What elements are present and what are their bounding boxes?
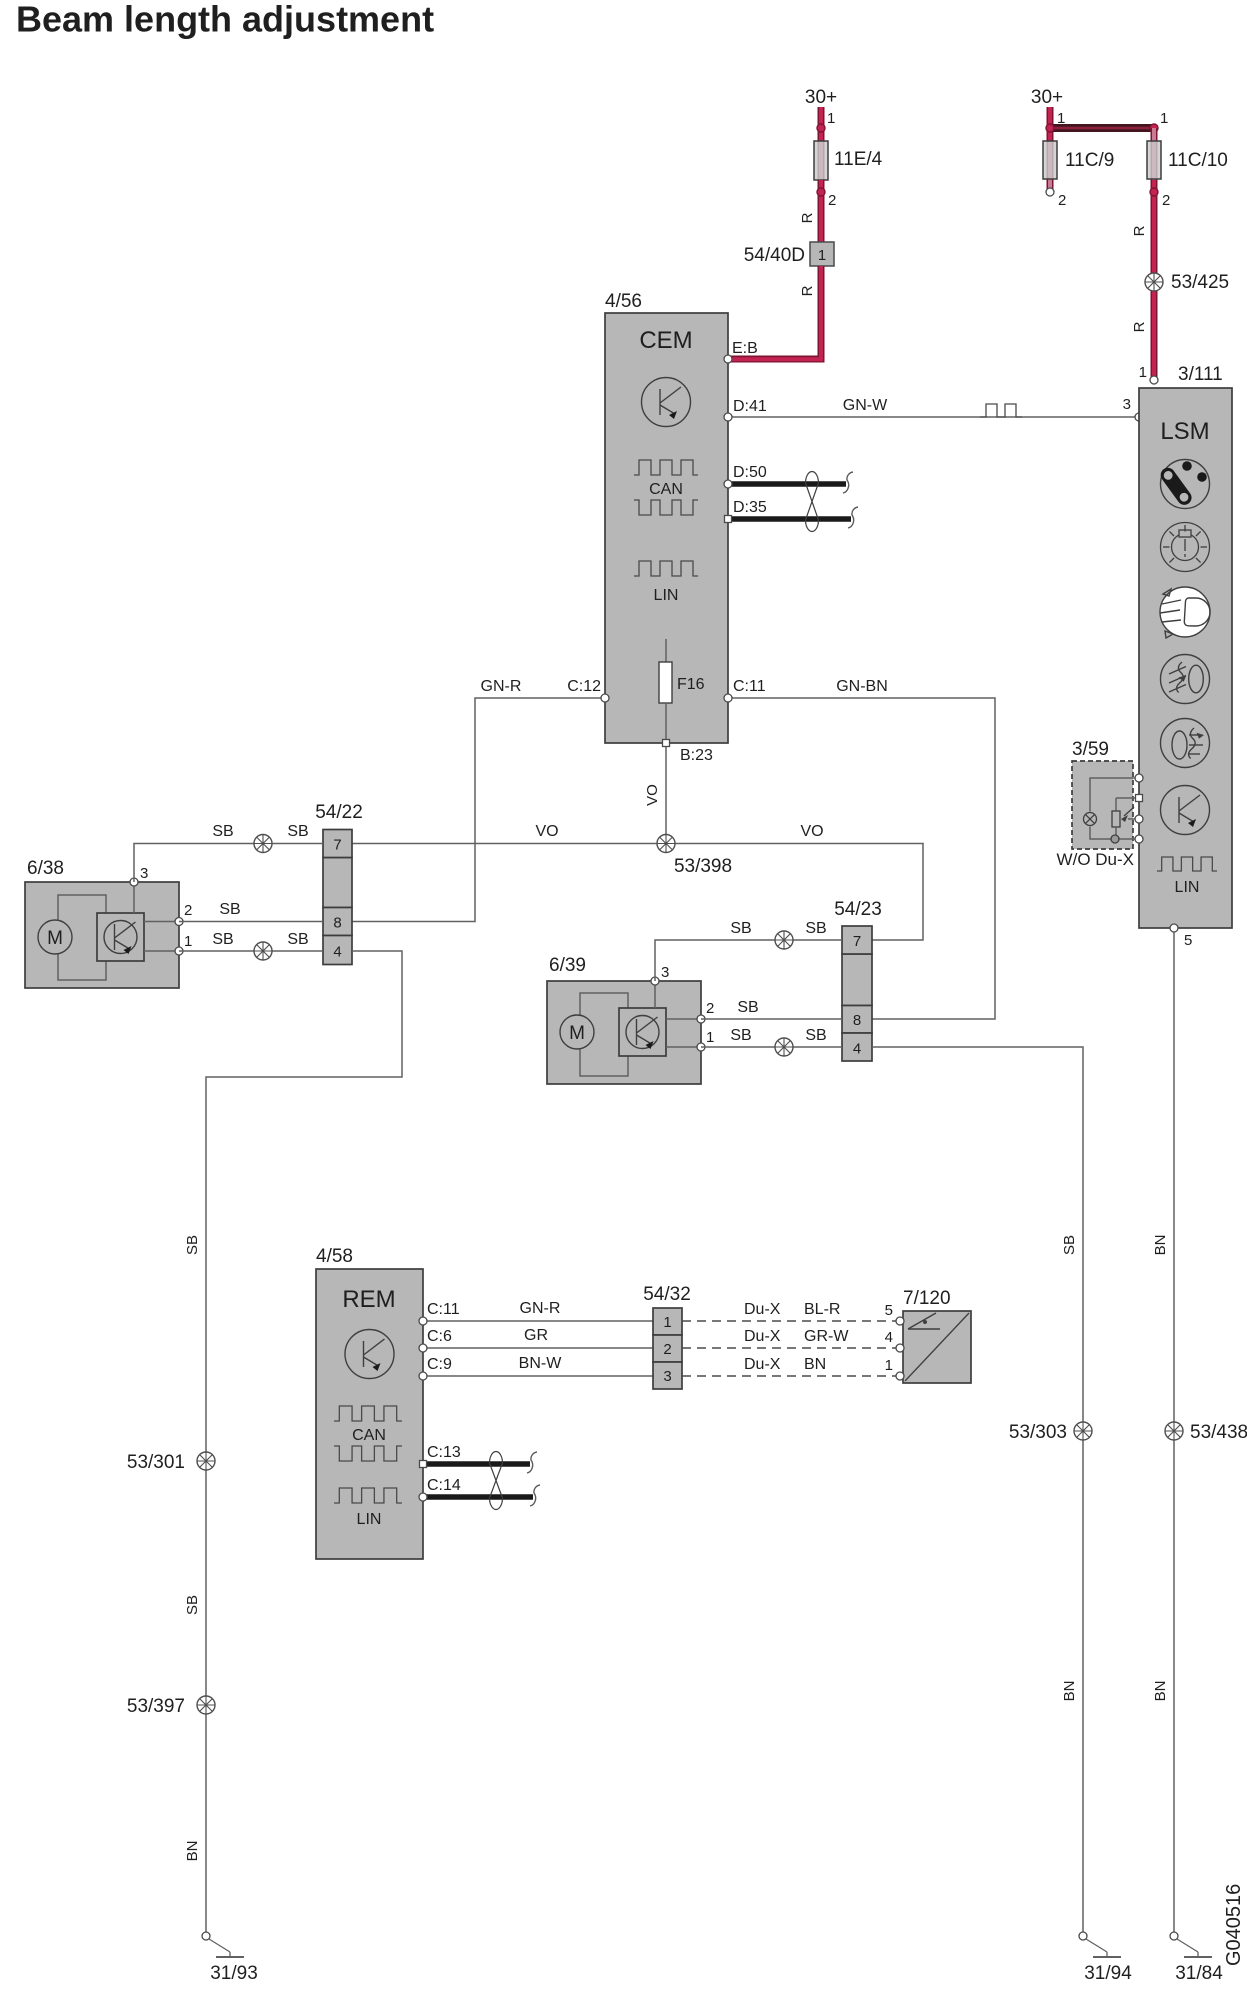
svg-text:SB: SB xyxy=(805,1027,826,1044)
red bus wire joining pin 1 of 11C/9 and 11C/10 xyxy=(1050,124,1154,132)
wire R from 54/40D to CEM E:B xyxy=(728,266,821,359)
svg-text:LIN: LIN xyxy=(1175,879,1200,896)
pin 2 of 11C/9 (open end) xyxy=(1046,188,1054,196)
svg-text:54/40D: 54/40D xyxy=(744,245,805,266)
wire end curl C:14 xyxy=(530,1485,540,1506)
LIN symbol in REM xyxy=(334,1488,402,1503)
svg-text:R: R xyxy=(799,212,816,223)
wire R fuse to connector 54/40D xyxy=(818,180,825,242)
connector 54/23 pin 7 xyxy=(842,926,872,954)
wire BN-W from REM C:9 to 54/32 pin 3 xyxy=(423,1375,653,1377)
wire SB from 6/38 pin 2 to 54/22 pin 8 xyxy=(179,921,323,923)
svg-text:31/94: 31/94 xyxy=(1084,1963,1132,1984)
svg-text:D:41: D:41 xyxy=(733,398,767,415)
svg-text:LIN: LIN xyxy=(654,587,679,604)
svg-text:SB: SB xyxy=(737,999,758,1016)
twisted pair symbol for CAN wires xyxy=(806,472,819,532)
svg-text:6/38: 6/38 xyxy=(27,858,64,879)
pin 2 of 6/38 xyxy=(144,921,179,923)
svg-text:1: 1 xyxy=(706,1029,714,1046)
CAN twisted pair wire from C:13 (cut) xyxy=(423,1461,530,1467)
pin 5 of 7/120 xyxy=(896,1317,904,1325)
wire GN-BN from CEM C:11 to 54/23 pin 8 xyxy=(728,698,995,1019)
svg-text:4: 4 xyxy=(333,944,341,961)
svg-text:LSM: LSM xyxy=(1160,418,1209,445)
pin 2 of 6/39 xyxy=(666,1018,701,1020)
svg-text:M: M xyxy=(569,1023,585,1044)
CAN twisted pair wire from D:35 (cut) xyxy=(728,516,851,522)
svg-text:C:13: C:13 xyxy=(427,1444,461,1461)
connector 54/22 pin 8 xyxy=(323,908,352,936)
svg-text:BN: BN xyxy=(1152,1681,1169,1702)
svg-text:LIN: LIN xyxy=(357,1511,382,1528)
wire end curl D:35 xyxy=(848,507,858,528)
svg-text:BL-R: BL-R xyxy=(804,1301,840,1318)
pin 3 of 6/39 xyxy=(654,981,656,1008)
junction in 3/59 xyxy=(1111,835,1119,843)
inclinometer symbol in 7/120 xyxy=(908,1328,940,1330)
pin 2 of 11C/10 xyxy=(1150,188,1158,196)
pin 1 of 6/38 xyxy=(144,950,179,952)
svg-text:SB: SB xyxy=(1061,1235,1078,1255)
ground 31/84 xyxy=(1170,1932,1212,1957)
svg-text:6/39: 6/39 xyxy=(549,955,586,976)
level sensor 7/120 xyxy=(903,1311,971,1383)
svg-text:VO: VO xyxy=(644,784,661,806)
svg-text:GN-R: GN-R xyxy=(520,1300,561,1317)
svg-text:2: 2 xyxy=(828,192,836,209)
svg-text:SB: SB xyxy=(730,920,751,937)
svg-text:8: 8 xyxy=(853,1012,861,1029)
svg-text:2: 2 xyxy=(706,1000,714,1017)
wire GN-R from REM C:11 to 54/32 pin 1 xyxy=(423,1320,653,1322)
fuse F16 inside CEM xyxy=(665,639,667,662)
pin 1 of 6/39 xyxy=(666,1046,701,1048)
svg-text:4/58: 4/58 xyxy=(316,1246,353,1267)
connector 54/22 pin 4 xyxy=(323,936,352,965)
svg-text:2: 2 xyxy=(184,902,192,919)
svg-text:7: 7 xyxy=(853,933,861,950)
svg-text:1: 1 xyxy=(1057,110,1065,127)
svg-text:30+: 30+ xyxy=(805,87,837,108)
svg-text:2: 2 xyxy=(663,1341,671,1358)
svg-text:GR: GR xyxy=(524,1327,548,1344)
wire GR-W (Du-X) from 54/32 pin 2 to 7/120 pin 4 xyxy=(682,1347,896,1349)
svg-text:R: R xyxy=(799,285,816,296)
svg-text:31/93: 31/93 xyxy=(210,1963,258,1984)
svg-text:D:35: D:35 xyxy=(733,499,767,516)
svg-text:1: 1 xyxy=(1139,364,1147,381)
resistor symbol in 3/59 xyxy=(1115,798,1117,811)
connector 54/23 pin 4 xyxy=(842,1033,872,1061)
motor winding loop in 6/38 xyxy=(58,895,106,980)
svg-text:7: 7 xyxy=(333,837,341,854)
control module 3/111 LSM xyxy=(1139,388,1232,928)
pin 1 of 11C/9 xyxy=(1046,124,1054,132)
pin 1 of 11C/10 xyxy=(1150,124,1158,132)
svg-text:SB: SB xyxy=(184,1235,201,1255)
transistor symbol inside CEM xyxy=(642,378,691,427)
svg-text:F16: F16 xyxy=(677,676,705,693)
svg-text:11C/9: 11C/9 xyxy=(1065,150,1114,171)
pins of 3/59 on LSM edge xyxy=(1135,774,1143,782)
transistor box in 6/39 xyxy=(619,1008,666,1056)
fuse 11C/9 xyxy=(1047,141,1054,192)
svg-text:5: 5 xyxy=(885,1302,893,1319)
svg-text:SB: SB xyxy=(184,1595,201,1615)
svg-text:C:11: C:11 xyxy=(733,678,766,695)
component 3/59 (W/O Du-X) xyxy=(1072,761,1133,849)
svg-text:B:23: B:23 xyxy=(680,747,713,764)
svg-text:BN: BN xyxy=(1061,1681,1078,1702)
transistor symbol in REM xyxy=(345,1330,394,1379)
turn signal stalk icon in LSM xyxy=(1159,460,1210,509)
headlamp levelling motor 6/39 xyxy=(547,981,701,1084)
pin 1 of 7/120 xyxy=(896,1372,904,1380)
svg-text:R: R xyxy=(1131,321,1148,332)
svg-text:Du-X: Du-X xyxy=(744,1328,781,1345)
lamp symbol in 3/59 xyxy=(1084,813,1097,826)
svg-text:BN-W: BN-W xyxy=(519,1355,563,1372)
svg-text:VO: VO xyxy=(800,823,823,840)
svg-text:BN: BN xyxy=(184,1841,201,1862)
CAN twisted pair wire from D:50 (cut) xyxy=(728,481,846,487)
wire from resistor to LSM second pin xyxy=(1116,797,1139,799)
splice on SB wire xyxy=(254,835,272,853)
splice 53/301 xyxy=(197,1452,215,1470)
svg-text:E:B: E:B xyxy=(732,340,758,357)
wire VO from CEM B:23 to splice 53/398 xyxy=(665,743,667,844)
svg-text:SB: SB xyxy=(805,920,826,937)
svg-text:11C/10: 11C/10 xyxy=(1168,150,1228,171)
svg-text:4/56: 4/56 xyxy=(605,291,642,312)
wire R from 30+ down to fuse 11C/9 xyxy=(1047,107,1054,141)
fuse 11C/10 xyxy=(1151,128,1158,180)
svg-text:G040516: G040516 xyxy=(1223,1884,1245,1966)
svg-text:CEM: CEM xyxy=(639,327,692,354)
svg-text:4: 4 xyxy=(853,1041,861,1058)
svg-text:53/397: 53/397 xyxy=(127,1696,185,1717)
front fog lamp icon in LSM xyxy=(1161,655,1210,704)
control module 4/56 CEM xyxy=(605,313,728,743)
wire SB from 6/39 pin 3 to 54/23 pin 7 xyxy=(655,940,842,981)
svg-text:BN: BN xyxy=(1152,1235,1169,1256)
svg-text:53/303: 53/303 xyxy=(1009,1422,1067,1443)
svg-text:3: 3 xyxy=(663,1368,671,1385)
control module 4/58 REM xyxy=(316,1269,423,1559)
wire from 3/59 lamp to LSM upper pin xyxy=(1090,778,1139,812)
svg-text:CAN: CAN xyxy=(352,1427,386,1444)
svg-text:53/301: 53/301 xyxy=(127,1452,185,1473)
wire VO from splice to 54/23 pin 7 xyxy=(666,844,923,941)
svg-text:3: 3 xyxy=(1123,396,1131,413)
svg-text:3: 3 xyxy=(661,964,669,981)
ground 31/94 xyxy=(1079,1932,1121,1957)
wire SB from 6/38 pin 3 to 54/22 pin 7 xyxy=(134,844,323,883)
svg-text:1: 1 xyxy=(827,110,835,127)
LIN symbol in LSM xyxy=(1157,857,1217,871)
pin 1 of LSM xyxy=(1150,376,1158,384)
svg-text:W/O Du-X: W/O Du-X xyxy=(1057,850,1134,869)
CAN twisted pair wire from C:14 (cut) xyxy=(423,1494,533,1500)
headlamp levelling motor 6/38 xyxy=(25,882,179,988)
motor symbol M in 6/39 xyxy=(560,1015,594,1049)
wire VO from splice to 54/22 pin 7 xyxy=(352,843,666,845)
wire SB from 54/23 pin 4 to ground 31/94 xyxy=(872,1047,1083,1936)
ground 31/93 xyxy=(202,1932,244,1957)
wire SB from 54/22 pin 4 to ground wire xyxy=(206,951,402,1936)
connector 54/32 pin 2 xyxy=(653,1335,682,1362)
wire end curl D:50 xyxy=(843,472,853,493)
svg-text:4: 4 xyxy=(885,1329,893,1346)
svg-text:53/398: 53/398 xyxy=(674,856,732,877)
headlamp low beam icon in LSM xyxy=(1160,587,1210,638)
splice 53/303 xyxy=(1074,1422,1092,1440)
connector 54/22 pin 7 xyxy=(323,830,352,858)
motor symbol M in 6/38 xyxy=(38,920,72,954)
svg-text:54/23: 54/23 xyxy=(834,899,882,920)
svg-text:SB: SB xyxy=(219,901,240,918)
pin E:B of CEM xyxy=(724,355,732,363)
svg-text:Beam length adjustment: Beam length adjustment xyxy=(16,0,434,40)
svg-text:CAN: CAN xyxy=(649,481,683,498)
wire end curl C:13 xyxy=(527,1452,537,1473)
splice 53/425 xyxy=(1145,273,1163,291)
svg-text:1: 1 xyxy=(663,1314,671,1331)
svg-text:C:14: C:14 xyxy=(427,1477,461,1494)
wiper arrow from LSM third pin to resistor xyxy=(1128,818,1139,820)
pin 3 of 6/38 xyxy=(133,882,135,913)
connector 54/32 pin 1 xyxy=(653,1308,682,1335)
svg-text:GN-BN: GN-BN xyxy=(836,678,888,695)
pin 4 of 7/120 xyxy=(896,1344,904,1352)
svg-text:SB: SB xyxy=(212,931,233,948)
connector 54/32 pin 3 xyxy=(653,1362,682,1389)
svg-text:C:9: C:9 xyxy=(427,1356,452,1373)
rotary light switch icon in LSM xyxy=(1161,523,1210,572)
svg-text:GN-W: GN-W xyxy=(843,397,888,414)
svg-text:SB: SB xyxy=(287,823,308,840)
svg-text:Du-X: Du-X xyxy=(744,1356,781,1373)
rear fog lamp icon in LSM xyxy=(1161,719,1210,768)
svg-text:53/425: 53/425 xyxy=(1171,272,1229,293)
svg-text:VO: VO xyxy=(535,823,558,840)
diagonal line in 7/120 xyxy=(905,1313,969,1381)
wire R from 11C/10 to LSM pin 1 xyxy=(1151,180,1158,380)
splice on SB wire xyxy=(775,1038,793,1056)
svg-text:11E/4: 11E/4 xyxy=(834,149,883,170)
svg-text:Du-X: Du-X xyxy=(744,1301,781,1318)
wire from 3/59 lamp bottom to lower pin xyxy=(1090,827,1139,840)
pin 1 of 11E/4 xyxy=(817,124,825,132)
motor winding loop in 6/39 xyxy=(580,993,628,1076)
wire R from 30+ to fuse 11E/4 xyxy=(818,107,825,141)
svg-text:GR-W: GR-W xyxy=(804,1328,849,1345)
wire BN from LSM pin 5 to ground 31/84 xyxy=(1173,932,1175,1936)
pin 3 of LSM xyxy=(1135,413,1143,421)
CAN symbol inside CEM xyxy=(634,460,698,475)
svg-text:C:6: C:6 xyxy=(427,1328,452,1345)
svg-text:REM: REM xyxy=(342,1286,395,1313)
svg-text:8: 8 xyxy=(333,915,341,932)
wire SB from 6/39 pin 1 to 54/23 pin 4 xyxy=(701,1046,842,1048)
svg-text:1: 1 xyxy=(885,1357,893,1374)
svg-text:1: 1 xyxy=(184,933,192,950)
wire GN-R from CEM C:12 to 54/22 pin 8 xyxy=(352,698,605,922)
transistor symbol in LSM xyxy=(1161,786,1210,835)
svg-text:SB: SB xyxy=(287,931,308,948)
wire BN (Du-X) from 54/32 pin 3 to 7/120 pin 1 xyxy=(682,1375,896,1377)
wire SB from 6/38 pin 1 to 54/22 pin 4 xyxy=(179,950,323,952)
svg-text:31/84: 31/84 xyxy=(1175,1963,1223,1984)
pulse signal symbol on GN-W wire xyxy=(980,404,1022,417)
svg-text:3/111: 3/111 xyxy=(1178,364,1223,385)
connector 54/40D pin 1 xyxy=(810,242,834,266)
svg-text:1: 1 xyxy=(818,247,826,264)
svg-text:GN-R: GN-R xyxy=(481,678,522,695)
wire GN-W from CEM D:41 to LSM pin 3 xyxy=(728,416,1139,418)
connector 54/23 pin 8 xyxy=(842,1006,872,1034)
svg-text:R: R xyxy=(1131,225,1148,236)
LIN symbol inside CEM xyxy=(634,561,698,576)
wire GR from REM C:6 to 54/32 pin 2 xyxy=(423,1347,653,1349)
svg-text:D:50: D:50 xyxy=(733,464,767,481)
pin 2 of 11E/4 xyxy=(817,188,825,196)
svg-text:SB: SB xyxy=(212,823,233,840)
splice 53/398 xyxy=(657,835,675,853)
svg-text:53/438: 53/438 xyxy=(1190,1422,1247,1443)
svg-text:2: 2 xyxy=(1058,192,1066,209)
svg-text:M: M xyxy=(47,928,63,949)
wire SB from 6/39 pin 2 to 54/23 pin 8 xyxy=(701,1018,842,1020)
svg-text:SB: SB xyxy=(730,1027,751,1044)
twisted pair symbol for REM CAN wires xyxy=(490,1452,503,1510)
svg-text:2: 2 xyxy=(1162,192,1170,209)
svg-text:1: 1 xyxy=(1160,110,1168,127)
wire BL-R (Du-X) from 54/32 pin 1 to 7/120 pin 5 xyxy=(682,1320,896,1322)
svg-text:C:12: C:12 xyxy=(567,678,601,695)
svg-text:5: 5 xyxy=(1184,932,1192,949)
splice 53/397 xyxy=(197,1696,215,1714)
svg-text:C:11: C:11 xyxy=(427,1301,460,1318)
splice on SB wire xyxy=(254,942,272,960)
svg-text:30+: 30+ xyxy=(1031,87,1063,108)
svg-text:7/120: 7/120 xyxy=(903,1288,951,1309)
CAN symbol in REM xyxy=(334,1406,402,1421)
svg-text:3: 3 xyxy=(140,865,148,882)
svg-text:BN: BN xyxy=(804,1356,826,1373)
fuse 11E/4 xyxy=(818,141,825,180)
svg-text:3/59: 3/59 xyxy=(1072,739,1109,760)
svg-text:54/22: 54/22 xyxy=(315,802,363,823)
splice on SB wire xyxy=(775,931,793,949)
splice 53/438 xyxy=(1165,1422,1183,1440)
svg-text:54/32: 54/32 xyxy=(643,1284,691,1305)
transistor box in 6/38 xyxy=(97,913,144,961)
pin 5 of LSM xyxy=(1170,924,1178,932)
